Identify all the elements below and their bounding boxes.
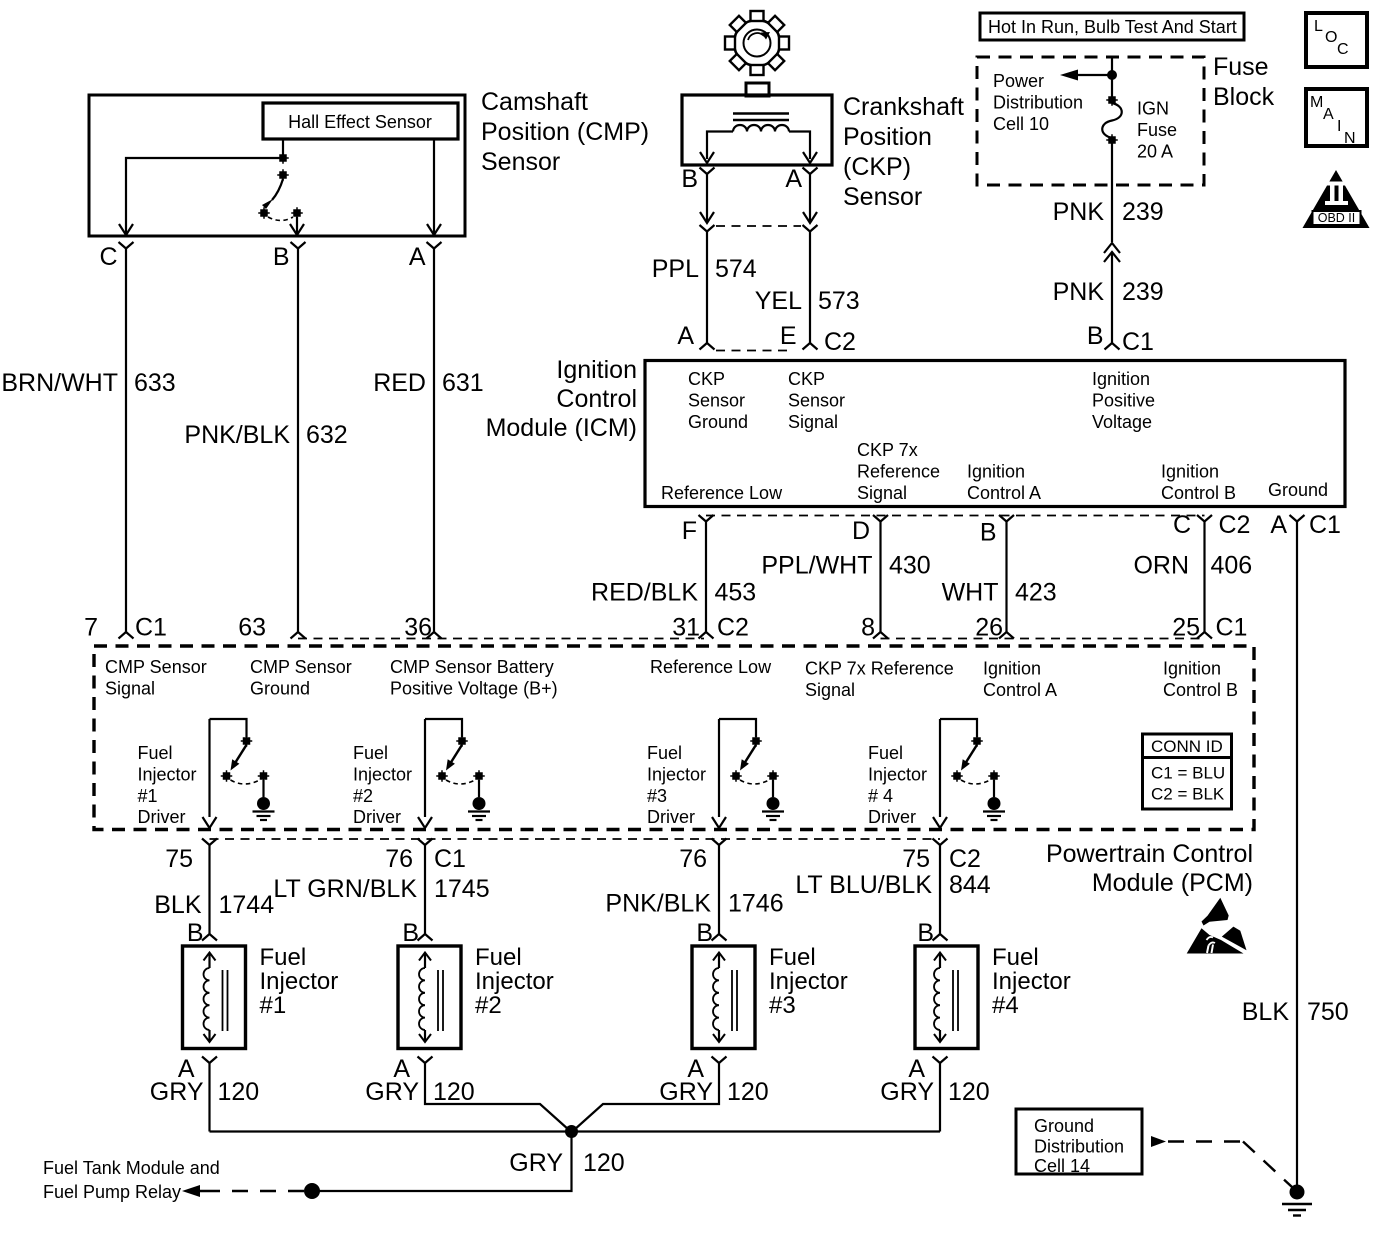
svg-text:Power: Power	[993, 71, 1044, 91]
svg-text:CKP 7x Reference: CKP 7x Reference	[805, 659, 954, 679]
svg-text:CMP Sensor: CMP Sensor	[250, 657, 352, 677]
svg-text:Driver: Driver	[868, 807, 916, 827]
svg-text:Fuse: Fuse	[1137, 120, 1177, 140]
svg-text:PNK: PNK	[1053, 278, 1105, 306]
svg-text:423: 423	[1015, 579, 1057, 607]
inline connector male A	[803, 212, 817, 223]
wire GRY injector 2 down	[425, 1063, 569, 1130]
svg-text:CMP Sensor Battery: CMP Sensor Battery	[390, 657, 554, 677]
wire YEL 573 upper	[809, 174, 811, 222]
svg-text:Positive Voltage (B+): Positive Voltage (B+)	[390, 679, 558, 699]
fuel injector #2 driver	[425, 719, 462, 737]
IGN fuse element	[1102, 103, 1122, 138]
svg-text:C2: C2	[1219, 511, 1251, 539]
ground distribution box	[1016, 1109, 1142, 1174]
ground symbol G103	[1290, 1185, 1305, 1200]
wire Hall sensor to switch	[282, 139, 284, 155]
wire RED/BLK 453	[705, 522, 707, 633]
svg-text:I: I	[1337, 118, 1341, 135]
svg-text:LT BLU/BLK: LT BLU/BLK	[795, 871, 932, 899]
injector #2 coil symbol	[424, 953, 426, 968]
svg-text:Sensor: Sensor	[688, 391, 745, 411]
svg-text:A: A	[677, 322, 694, 350]
svg-text:Ground: Ground	[250, 679, 310, 699]
fuel injector #4 box	[915, 946, 978, 1049]
svg-text:Ignition: Ignition	[1092, 369, 1150, 389]
svg-text:239: 239	[1122, 278, 1164, 306]
svg-text:Cell 14: Cell 14	[1034, 1156, 1090, 1176]
svg-text:C: C	[1173, 511, 1191, 539]
svg-text:CKP: CKP	[788, 369, 825, 389]
svg-text:75: 75	[902, 845, 930, 873]
wire GRY injector 1 down	[208, 1063, 210, 1132]
svg-text:1746: 1746	[728, 890, 784, 918]
svg-text:CONN ID: CONN ID	[1151, 737, 1223, 756]
svg-text:WHT: WHT	[942, 579, 999, 607]
CKP coil lead left	[707, 132, 733, 160]
svg-text:CKP 7x: CKP 7x	[857, 440, 918, 460]
svg-text:120: 120	[218, 1078, 260, 1106]
svg-text:B: B	[980, 519, 997, 547]
svg-text:Ignition: Ignition	[983, 659, 1041, 679]
svg-text:Signal: Signal	[105, 679, 155, 699]
CKP core lines	[733, 112, 789, 114]
svg-text:Ignition: Ignition	[1161, 462, 1219, 482]
svg-text:Sensor: Sensor	[843, 183, 922, 211]
switch arm with arrow	[272, 179, 283, 200]
svg-text:Fuel: Fuel	[868, 743, 903, 763]
svg-text:IGN: IGN	[1137, 99, 1169, 119]
svg-text:Fuel: Fuel	[138, 743, 173, 763]
svg-text:C1: C1	[434, 845, 466, 873]
OBD II badge	[1303, 170, 1370, 228]
ICM module box	[645, 361, 1345, 507]
fuel injector #4 driver	[940, 719, 977, 737]
contact square switch left	[260, 209, 268, 217]
wire PNK/BLK 632	[297, 249, 299, 633]
svg-text:Signal: Signal	[857, 483, 907, 503]
svg-text:C1: C1	[1216, 614, 1248, 642]
svg-text:PNK: PNK	[1053, 198, 1105, 226]
svg-text:453: 453	[715, 579, 757, 607]
junction dot fuse	[1107, 70, 1117, 80]
CKP pickup coil	[733, 125, 789, 131]
Hot In Run box	[980, 13, 1244, 40]
injector #3 coil symbol	[718, 953, 720, 968]
svg-text:Ignition: Ignition	[556, 356, 637, 384]
wire PNK 239 lower	[1111, 252, 1113, 343]
inline connector female B	[700, 225, 715, 232]
wire ORN 406	[1203, 522, 1205, 633]
svg-text:ORN: ORN	[1133, 552, 1189, 580]
svg-text:Fuel: Fuel	[475, 944, 522, 971]
svg-text:430: 430	[889, 552, 931, 580]
inline connector chevrons	[1104, 243, 1120, 253]
wire PPL 574 lower	[706, 232, 708, 344]
CKP reluctor gear	[725, 11, 789, 75]
inline connector male B	[700, 212, 714, 223]
svg-text:#2: #2	[475, 992, 502, 1019]
svg-text:M: M	[1310, 94, 1323, 111]
svg-text:Crankshaft: Crankshaft	[843, 93, 964, 121]
svg-text:Fuel: Fuel	[992, 944, 1039, 971]
svg-text:#1: #1	[138, 786, 158, 806]
svg-text:120: 120	[948, 1078, 990, 1106]
svg-text:Positive: Positive	[1092, 391, 1155, 411]
svg-text:Injector: Injector	[475, 968, 554, 995]
svg-text:Position (CMP): Position (CMP)	[481, 118, 649, 146]
svg-text:Ground: Ground	[1034, 1116, 1094, 1136]
CKP sensor stub	[746, 83, 769, 96]
CKP pin B arrow inside	[700, 152, 714, 163]
svg-text:(CKP): (CKP)	[843, 153, 911, 181]
svg-text:Fuel: Fuel	[647, 743, 682, 763]
dashed switch travel arc	[268, 217, 293, 221]
svg-text:LT GRN/BLK: LT GRN/BLK	[273, 875, 417, 903]
CONN ID box	[1143, 734, 1232, 809]
wire GRY injector 3 down	[574, 1063, 719, 1130]
svg-text:GRY: GRY	[509, 1149, 563, 1177]
svg-text:Module (ICM): Module (ICM)	[486, 414, 637, 442]
svg-text:76: 76	[679, 845, 707, 873]
svg-text:PNK/BLK: PNK/BLK	[184, 421, 290, 449]
svg-text:C2 = BLK: C2 = BLK	[1151, 785, 1225, 804]
svg-text:B: B	[1087, 322, 1104, 350]
svg-text:GRY: GRY	[659, 1078, 713, 1106]
svg-text:E: E	[780, 322, 797, 350]
svg-text:Sensor: Sensor	[481, 148, 560, 176]
svg-text:B: B	[187, 919, 204, 947]
svg-text:31: 31	[672, 614, 700, 642]
svg-text:Fuel: Fuel	[353, 743, 388, 763]
svg-text:Injector: Injector	[138, 765, 197, 785]
svg-text:573: 573	[818, 287, 860, 315]
svg-text:C1: C1	[135, 614, 167, 642]
svg-text:Driver: Driver	[138, 807, 186, 827]
svg-text:PPL: PPL	[652, 255, 699, 283]
dashed wire ground distribution	[1168, 1140, 1243, 1142]
arrowhead ground distribution	[1151, 1136, 1166, 1147]
wire PPL 574 upper	[706, 174, 708, 222]
wire switch common to pin C	[126, 158, 283, 233]
fuel injector #2 box	[398, 946, 461, 1049]
svg-text:#3: #3	[647, 786, 667, 806]
arrowhead to power distribution	[1060, 70, 1078, 81]
svg-text:A: A	[1323, 106, 1334, 123]
wire GRY to fuel pump	[312, 1132, 572, 1192]
wire PNK 239 upper	[1111, 143, 1113, 242]
svg-text:Signal: Signal	[788, 412, 838, 432]
svg-text:Control: Control	[556, 385, 637, 413]
wire fuse top	[1111, 57, 1113, 97]
svg-text:CMP Sensor: CMP Sensor	[105, 657, 207, 677]
svg-text:B: B	[402, 919, 419, 947]
PCM module dashed box	[94, 646, 1254, 830]
svg-text:239: 239	[1122, 198, 1164, 226]
svg-text:Driver: Driver	[647, 807, 695, 827]
injector #4 coil symbol	[939, 953, 941, 968]
svg-text:Position: Position	[843, 123, 932, 151]
svg-text:Fuel: Fuel	[769, 944, 816, 971]
wire YEL 573 lower	[809, 232, 811, 344]
CMP sensor module box	[89, 95, 465, 236]
svg-text:Reference Low: Reference Low	[650, 657, 772, 677]
wire BLK 1744	[208, 845, 210, 934]
svg-text:120: 120	[433, 1078, 475, 1106]
wire WHT 423	[1005, 522, 1007, 633]
fuel injector #3 driver	[719, 719, 756, 737]
svg-text:Control A: Control A	[967, 483, 1041, 503]
svg-text:C2: C2	[949, 845, 981, 873]
svg-text:#4: #4	[992, 992, 1019, 1019]
svg-text:CKP: CKP	[688, 369, 725, 389]
svg-text:Reference: Reference	[857, 462, 940, 482]
svg-text:N: N	[1344, 130, 1356, 147]
CKP sensor box	[682, 95, 832, 165]
svg-text:Control A: Control A	[983, 680, 1057, 700]
svg-text:B: B	[273, 243, 290, 271]
svg-text:C1 = BLU: C1 = BLU	[1151, 764, 1225, 783]
pin A arrow inside CMP	[427, 224, 441, 235]
dashed wire to fuel pump relay	[214, 1190, 304, 1192]
fuse block dashed box	[977, 57, 1204, 185]
pin C arrow inside CMP	[119, 224, 133, 235]
svg-text:GRY: GRY	[150, 1078, 204, 1106]
svg-text:PNK/BLK: PNK/BLK	[605, 890, 711, 918]
svg-text:Injector: Injector	[769, 968, 848, 995]
svg-text:PPL/WHT: PPL/WHT	[761, 552, 872, 580]
fuel injector #1 driver	[210, 719, 247, 737]
svg-text:B: B	[681, 165, 698, 193]
svg-text:Ground: Ground	[1268, 480, 1328, 500]
svg-text:Powertrain Control: Powertrain Control	[1046, 840, 1253, 868]
svg-text:#2: #2	[353, 786, 373, 806]
svg-text:BLK: BLK	[154, 891, 202, 919]
svg-text:C2: C2	[717, 614, 749, 642]
svg-text:C: C	[1337, 41, 1349, 58]
wire RED 631	[433, 249, 435, 633]
svg-text:Fuel: Fuel	[260, 944, 307, 971]
svg-text:BLK: BLK	[1242, 998, 1290, 1026]
svg-text:Reference Low: Reference Low	[661, 483, 783, 503]
svg-text:B: B	[917, 919, 934, 947]
wire BLK 750	[1296, 522, 1298, 1187]
svg-text:574: 574	[715, 255, 757, 283]
svg-text:633: 633	[134, 369, 176, 397]
svg-text:Camshaft: Camshaft	[481, 88, 588, 116]
contact square switch right	[293, 209, 301, 217]
connector C2 dashed face line	[298, 638, 704, 640]
svg-text:Fuel Pump Relay: Fuel Pump Relay	[43, 1182, 181, 1202]
pin B arrow inside CMP	[296, 217, 298, 233]
wire PNK/BLK 1746	[718, 845, 720, 934]
inline connector female A	[803, 225, 818, 232]
injector #1 coil symbol	[208, 953, 210, 968]
ESD sensitive symbol	[1202, 898, 1229, 926]
svg-text:C2: C2	[824, 328, 856, 356]
wire to power distribution	[1076, 74, 1112, 76]
ICM bottom connector dashed line	[706, 515, 1205, 517]
svg-text:Injector: Injector	[992, 968, 1071, 995]
svg-text:Control B: Control B	[1161, 483, 1236, 503]
svg-text:C: C	[99, 243, 117, 271]
svg-text:# 4: # 4	[868, 786, 893, 806]
svg-text:Signal: Signal	[805, 680, 855, 700]
svg-text:GRY: GRY	[880, 1078, 934, 1106]
svg-text:O: O	[1325, 29, 1337, 46]
svg-text:GRY: GRY	[365, 1078, 419, 1106]
svg-text:Voltage: Voltage	[1092, 412, 1152, 432]
svg-text:Injector: Injector	[260, 968, 339, 995]
inline connector dashed line	[716, 225, 801, 227]
MAIN badge	[1306, 89, 1367, 146]
fuel injector #1 box	[183, 946, 246, 1049]
svg-text:1744: 1744	[219, 891, 275, 919]
svg-text:Injector: Injector	[868, 765, 927, 785]
PCM bottom connector dashed line	[210, 838, 941, 840]
svg-text:Module (PCM): Module (PCM)	[1092, 869, 1253, 897]
svg-text:Ignition: Ignition	[967, 462, 1025, 482]
wire LT GRN/BLK 1745	[424, 845, 426, 934]
svg-text:631: 631	[442, 369, 484, 397]
svg-text:Hall Effect Sensor: Hall Effect Sensor	[288, 112, 432, 132]
svg-text:YEL: YEL	[755, 287, 802, 315]
svg-text:20 A: 20 A	[1137, 142, 1173, 162]
svg-text:OBD II: OBD II	[1318, 211, 1356, 225]
contact square upper	[279, 154, 287, 162]
svg-text:Driver: Driver	[353, 807, 401, 827]
svg-text:750: 750	[1307, 998, 1349, 1026]
svg-text:Block: Block	[1213, 83, 1275, 111]
svg-text:120: 120	[727, 1078, 769, 1106]
svg-text:844: 844	[949, 871, 991, 899]
svg-text:F: F	[682, 517, 697, 545]
svg-text:Fuel Tank Module and: Fuel Tank Module and	[43, 1158, 220, 1178]
svg-text:76: 76	[385, 845, 413, 873]
svg-text:RED/BLK: RED/BLK	[591, 579, 698, 607]
svg-text:Distribution: Distribution	[1034, 1137, 1124, 1157]
contact square switch pivot	[279, 171, 287, 179]
fuse contact top	[1108, 96, 1116, 104]
svg-text:25: 25	[1172, 614, 1200, 642]
svg-text:C1: C1	[1309, 511, 1341, 539]
CKP coil lead right	[789, 132, 810, 160]
svg-text:B: B	[696, 919, 713, 947]
wire PPL/WHT 430	[879, 522, 881, 633]
svg-text:75: 75	[165, 845, 193, 873]
CKP pin A arrow inside	[803, 152, 817, 163]
svg-text:#3: #3	[769, 992, 796, 1019]
fuel injector #3 box	[692, 946, 755, 1049]
svg-text:#1: #1	[260, 992, 287, 1019]
svg-text:Distribution: Distribution	[993, 93, 1083, 113]
svg-text:Injector: Injector	[647, 765, 706, 785]
svg-text:406: 406	[1211, 552, 1253, 580]
svg-text:1745: 1745	[434, 875, 490, 903]
svg-text:Sensor: Sensor	[788, 391, 845, 411]
junction fuel pump branch	[304, 1183, 320, 1199]
svg-text:C1: C1	[1122, 328, 1154, 356]
wire BRN/WHT 633	[125, 249, 127, 633]
arrowhead fuel pump relay	[182, 1185, 200, 1197]
svg-text:A: A	[1270, 511, 1287, 539]
svg-text:632: 632	[306, 421, 348, 449]
svg-text:L: L	[1314, 18, 1323, 35]
svg-text:7: 7	[84, 614, 98, 642]
svg-text:63: 63	[238, 614, 266, 642]
LOC badge	[1306, 13, 1367, 67]
wire Hall sensor to pin A	[433, 139, 435, 233]
svg-text:120: 120	[583, 1149, 625, 1177]
svg-text:A: A	[409, 243, 426, 271]
svg-text:RED: RED	[373, 369, 426, 397]
connector C1 dashed face line	[881, 638, 1205, 640]
ICM top connector dashed line	[716, 350, 787, 352]
fuse contact bottom	[1108, 136, 1116, 144]
svg-text:Fuse: Fuse	[1213, 53, 1269, 81]
wire GRY bus horizontal	[210, 1130, 941, 1132]
Hall Effect Sensor box	[263, 103, 458, 139]
svg-text:Injector: Injector	[353, 765, 412, 785]
svg-text:Cell 10: Cell 10	[993, 114, 1049, 134]
wire GRY injector 4 down	[939, 1063, 941, 1132]
svg-text:Ignition: Ignition	[1163, 659, 1221, 679]
svg-text:Control B: Control B	[1163, 680, 1238, 700]
junction GRY bus	[565, 1125, 578, 1138]
svg-text:BRN/WHT: BRN/WHT	[1, 369, 118, 397]
svg-text:D: D	[852, 517, 870, 545]
wire LT BLU/BLK 844	[939, 845, 941, 934]
svg-text:Ground: Ground	[688, 412, 748, 432]
svg-text:A: A	[785, 165, 802, 193]
svg-text:Hot In Run, Bulb Test And Star: Hot In Run, Bulb Test And Start	[988, 17, 1237, 37]
